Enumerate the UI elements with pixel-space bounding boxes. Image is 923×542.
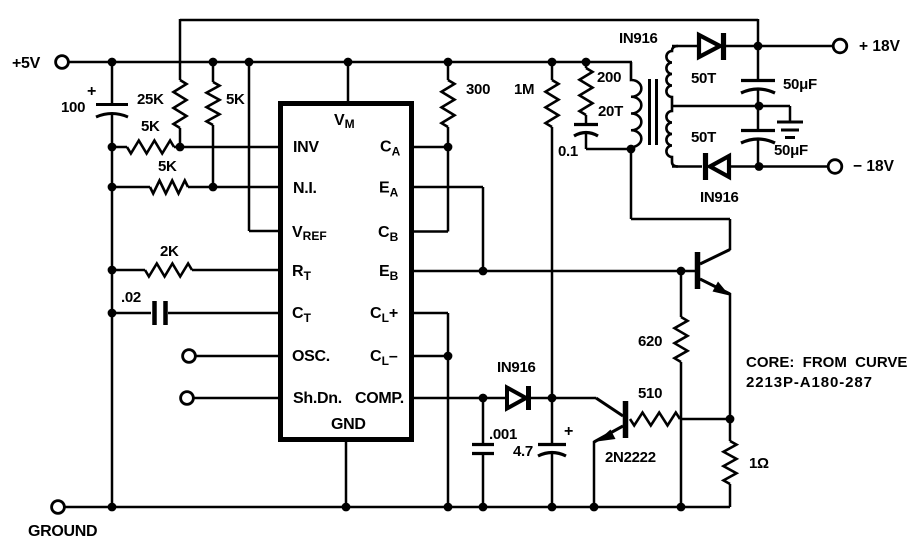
svg-text:620: 620 bbox=[638, 333, 662, 350]
wire Sh.Dn pin row bbox=[194, 397, 279, 400]
resistor 5K vertical (+5V to N.I.) bbox=[212, 62, 215, 82]
ground symbol (output common) bbox=[789, 106, 792, 122]
wire CL- pin row bbox=[414, 355, 448, 358]
junction dot GND/ground rail bbox=[342, 503, 351, 512]
svg-text:IN916: IN916 bbox=[497, 359, 536, 376]
wire CB jog bbox=[414, 230, 448, 233]
svg-text:2213P-A180-287: 2213P-A180-287 bbox=[746, 374, 873, 391]
svg-text:5K: 5K bbox=[141, 118, 160, 135]
wire COMP pin row bbox=[414, 397, 506, 400]
capacitor 100 (electrolytic +5V bypass) bbox=[111, 62, 114, 104]
wire EB pin row bbox=[414, 270, 695, 273]
wire Q1 emitter down bbox=[729, 293, 732, 419]
junction dot 620/ground bbox=[677, 503, 686, 512]
junction dot 4.7/ground bbox=[548, 503, 557, 512]
svg-text:5K: 5K bbox=[226, 91, 245, 108]
wire COMP to Q2 base bbox=[596, 398, 623, 416]
svg-text:+: + bbox=[87, 83, 96, 100]
wire N.I. pin row bbox=[112, 186, 150, 189]
transformer secondary winding 50T bottom bbox=[666, 106, 678, 167]
junction dot 5K/+5V bbox=[209, 58, 218, 67]
junction dot 100-column/2K bbox=[108, 266, 117, 275]
resistor 620 bbox=[680, 271, 683, 317]
junction dot EB/Q1 base bbox=[677, 267, 686, 276]
svg-text:25K: 25K bbox=[137, 91, 164, 108]
wire CA pin row bbox=[414, 146, 448, 149]
resistor 200 bbox=[585, 62, 588, 68]
svg-text:300: 300 bbox=[466, 81, 490, 98]
junction dot CL-/CL+ column bbox=[444, 352, 453, 361]
junction dot Q2 emitter/ground bbox=[590, 503, 599, 512]
diode IN916 (+18V rectifier) bbox=[672, 45, 699, 48]
svg-text:510: 510 bbox=[638, 385, 662, 402]
resistor 300 bbox=[442, 80, 455, 127]
junction dot VREF/+5V bbox=[245, 58, 254, 67]
svg-text:2N2222: 2N2222 bbox=[605, 449, 656, 466]
junction dot 5K/N.I. bbox=[209, 183, 218, 192]
junction dot CA/300 bbox=[444, 143, 453, 152]
svg-text:2K: 2K bbox=[160, 243, 179, 260]
svg-text:GND: GND bbox=[331, 416, 366, 433]
svg-text:1M: 1M bbox=[514, 81, 534, 98]
junction dot +5V/100 bbox=[108, 58, 117, 67]
svg-text:50μF: 50μF bbox=[783, 76, 817, 93]
junction dot EA/EB bbox=[479, 267, 488, 276]
junction dot 100-column/5K bbox=[108, 143, 117, 152]
node +5V input terminal bbox=[56, 56, 69, 69]
wire top feedback line bbox=[180, 19, 758, 22]
svg-text:1Ω: 1Ω bbox=[749, 455, 769, 472]
svg-text:20T: 20T bbox=[598, 103, 623, 120]
node OSC terminal bbox=[183, 350, 196, 363]
svg-text:100: 100 bbox=[61, 99, 85, 116]
transformer core bbox=[648, 79, 651, 145]
node -18V terminal bbox=[828, 160, 842, 174]
diode IN916 (COMP) bbox=[507, 388, 526, 409]
resistor 5K horizontal (INV row) bbox=[127, 141, 174, 154]
capacitor .001 bbox=[482, 398, 485, 444]
junction dot 300/+5V bbox=[444, 58, 453, 67]
svg-text:200: 200 bbox=[597, 69, 621, 86]
node +18V terminal bbox=[833, 39, 847, 53]
resistor 5K horizontal (N.I. row) bbox=[150, 181, 188, 194]
wire CL+ jog bbox=[414, 312, 448, 315]
junction dot 100-column/.02 bbox=[108, 309, 117, 318]
junction dot COMP/.001 bbox=[479, 394, 488, 403]
wire VM pin stub bbox=[347, 62, 350, 101]
svg-text:IN916: IN916 bbox=[619, 30, 658, 47]
junction dot 200/+5V bbox=[582, 58, 591, 67]
capacitor 50uF bottom bbox=[757, 106, 760, 130]
wire ground rail bbox=[65, 506, 731, 509]
junction dot 1M/+5V bbox=[548, 58, 557, 67]
junction dot 1M/COMP line bbox=[548, 394, 557, 403]
junction dot -18V node bbox=[755, 162, 764, 171]
junction dot 100-column/5K2 bbox=[108, 183, 117, 192]
junction dot CL column/ground bbox=[444, 503, 453, 512]
wire primary bottom bbox=[586, 148, 631, 151]
svg-text:INV: INV bbox=[293, 139, 319, 156]
svg-text:OSC.: OSC. bbox=[292, 348, 330, 365]
svg-text:.02: .02 bbox=[121, 289, 141, 306]
junction dot INV node bbox=[176, 143, 185, 152]
capacitor 0.1 bbox=[574, 123, 598, 126]
transistor Q1 (output, NPN) bbox=[695, 252, 701, 289]
resistor 510 (Q2 collector) bbox=[630, 413, 680, 426]
svg-text:N.I.: N.I. bbox=[293, 180, 317, 197]
wire VREF to +5V rail bbox=[248, 62, 251, 231]
resistor 1M bbox=[546, 80, 559, 127]
junction dot .001/ground bbox=[479, 503, 488, 512]
op-amp U1 PWM regulator box bbox=[281, 104, 412, 440]
wire +5V rail bbox=[69, 61, 633, 64]
wire INV pin row bbox=[112, 146, 127, 149]
transistor Q2 2N2222 (NPN) bbox=[623, 401, 629, 438]
wire secondary center tap bbox=[672, 105, 790, 108]
svg-text:− 18V: − 18V bbox=[853, 158, 895, 175]
capacitor .02 (CT row) bbox=[112, 312, 151, 315]
diode IN916 (-18V rectifier) bbox=[672, 165, 702, 168]
svg-text:+ 18V: + 18V bbox=[859, 38, 901, 55]
svg-text:GROUND: GROUND bbox=[28, 523, 97, 540]
capacitor 4.7 (electrolytic) bbox=[538, 443, 566, 446]
svg-text:CORE: FROM CURVE: CORE: FROM CURVE bbox=[746, 354, 907, 371]
wire GND pin stub bbox=[345, 442, 348, 507]
resistor 1 ohm bbox=[729, 419, 732, 441]
svg-text:COMP.: COMP. bbox=[355, 390, 404, 407]
junction dot VM/+5V bbox=[344, 58, 353, 67]
svg-text:.001: .001 bbox=[489, 426, 517, 443]
wire primary to transistor Q1 bbox=[630, 149, 633, 219]
svg-text:IN916: IN916 bbox=[700, 189, 739, 206]
wire OSC pin row bbox=[196, 355, 279, 358]
transformer secondary winding 50T top bbox=[666, 46, 678, 106]
node Sh.Dn terminal bbox=[181, 392, 194, 405]
svg-text:50T: 50T bbox=[691, 129, 716, 146]
wire EA jog bbox=[414, 186, 483, 189]
svg-text:+5V: +5V bbox=[12, 55, 41, 72]
svg-text:0.1: 0.1 bbox=[558, 143, 578, 160]
junction dot primary bottom bbox=[627, 145, 636, 154]
junction dot center tap/50uF bbox=[755, 102, 764, 111]
svg-text:50μF: 50μF bbox=[774, 142, 808, 159]
svg-text:50T: 50T bbox=[691, 70, 716, 87]
svg-text:5K: 5K bbox=[158, 158, 177, 175]
svg-text:+: + bbox=[564, 423, 573, 440]
junction dot 510/1ohm/Q1 emitter bbox=[726, 415, 735, 424]
junction dot +18V node bbox=[754, 42, 763, 51]
capacitor 50uF top bbox=[757, 46, 760, 80]
svg-text:4.7: 4.7 bbox=[513, 443, 533, 460]
junction dot ground rail/100 column bbox=[108, 503, 117, 512]
wire RT pin row bbox=[112, 269, 145, 272]
transformer primary winding 20T bbox=[631, 62, 641, 149]
resistor 25K (feedback divider) bbox=[174, 80, 187, 128]
resistor 2K (RT row) bbox=[145, 264, 192, 277]
svg-text:Sh.Dn.: Sh.Dn. bbox=[293, 390, 342, 407]
node GROUND terminal bbox=[52, 501, 65, 514]
wire 1M column bbox=[551, 62, 554, 80]
